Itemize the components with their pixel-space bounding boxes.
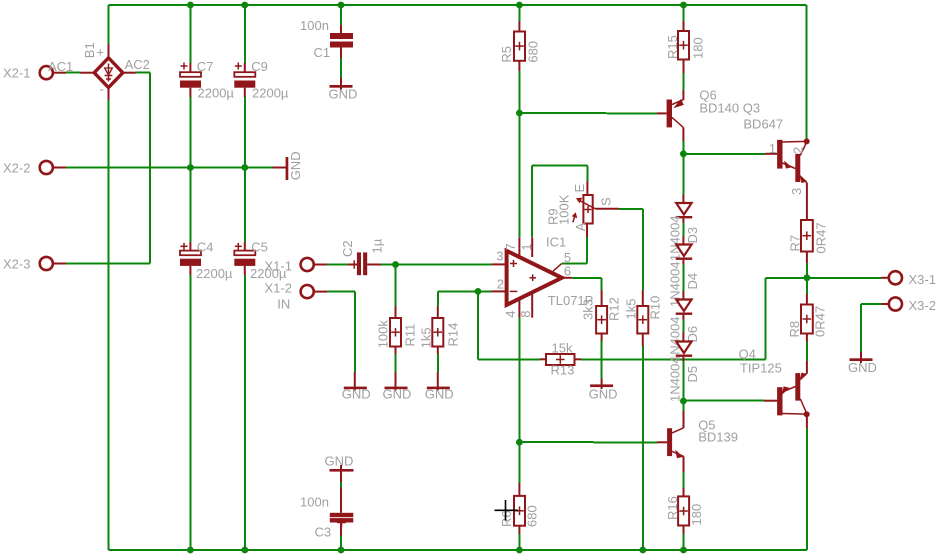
junction top rail C7 xyxy=(187,2,194,9)
wire feedback node down to R13 xyxy=(478,291,540,359)
transistor Q4 xyxy=(739,346,810,428)
cursor crosshair at R6 xyxy=(495,500,519,521)
wire D6 to D5 xyxy=(682,320,684,333)
svg-text:R12: R12 xyxy=(607,297,622,321)
junction bottom rail C5 xyxy=(241,547,248,554)
wire R12 to ground xyxy=(601,341,603,379)
svg-text:GND: GND xyxy=(425,387,454,402)
svg-text:X1-1: X1-1 xyxy=(265,259,292,274)
svg-text:GND: GND xyxy=(325,454,354,469)
svg-text:BD140 Q3: BD140 Q3 xyxy=(699,100,760,115)
wire R10 to bottom rail xyxy=(642,346,644,550)
svg-text:GND: GND xyxy=(329,87,358,102)
svg-text:X2-1: X2-1 xyxy=(3,66,30,81)
ground GND below C1 xyxy=(329,78,358,102)
wire right rail from top rail to Q3 collector xyxy=(806,5,808,139)
resistor R6 xyxy=(499,483,540,550)
junction ground row C7 xyxy=(187,164,194,171)
svg-text:GND: GND xyxy=(383,387,412,402)
op-amp IC1 xyxy=(491,234,593,317)
svg-text:100n: 100n xyxy=(300,495,329,510)
svg-text:R14: R14 xyxy=(445,323,460,347)
connector X3-1 xyxy=(881,271,936,287)
svg-text:R7: R7 xyxy=(788,235,803,252)
wire B1 minus to bottom rail xyxy=(108,100,110,550)
junction output node xyxy=(804,274,811,281)
svg-text:C9: C9 xyxy=(251,59,268,74)
svg-text:GND: GND xyxy=(589,387,618,402)
diode chain from Q6 collector xyxy=(682,154,684,195)
capacitor C5 xyxy=(234,168,287,551)
ground GND below X1-2 xyxy=(342,372,371,402)
wire node to Q4 base xyxy=(683,400,764,402)
junction R5/Q6 base node xyxy=(516,110,523,117)
svg-text:R16: R16 xyxy=(665,496,680,520)
junction bottom rail R10 xyxy=(639,547,646,554)
svg-text:180: 180 xyxy=(689,504,704,526)
svg-text:GND: GND xyxy=(342,387,371,402)
svg-text:R10: R10 xyxy=(648,296,663,320)
svg-text:680: 680 xyxy=(525,41,540,63)
svg-text:R5: R5 xyxy=(499,46,514,63)
svg-text:100n: 100n xyxy=(300,18,329,33)
diode D6 xyxy=(668,291,701,362)
svg-text:TIP125: TIP125 xyxy=(740,360,782,375)
wire B1 plus to top rail xyxy=(108,5,110,44)
resistor R13 xyxy=(540,341,581,378)
resistor R10 xyxy=(623,290,662,346)
svg-text:BD139: BD139 xyxy=(698,430,738,445)
wire V+ top rail xyxy=(109,4,807,6)
junction ground row C9 xyxy=(241,164,248,171)
capacitor C9 xyxy=(234,5,289,168)
junction Q6 collector node xyxy=(680,150,687,157)
svg-text:2: 2 xyxy=(791,147,806,154)
svg-text:AC1: AC1 xyxy=(48,59,73,74)
resistor R5 xyxy=(499,5,540,71)
wire node to Q5 collector xyxy=(682,401,684,411)
capacitor C7 xyxy=(180,5,234,168)
wire node to Q3 base xyxy=(683,153,765,155)
ground GND below R12 xyxy=(589,379,618,402)
svg-text:D3: D3 xyxy=(685,227,700,244)
svg-text:180: 180 xyxy=(690,37,705,59)
svg-text:0R47: 0R47 xyxy=(814,222,829,253)
junction bottom rail R16 xyxy=(680,547,687,554)
junction bias node xyxy=(680,398,687,405)
svg-text:X1-2: X1-2 xyxy=(265,281,292,296)
svg-text:E: E xyxy=(572,184,587,193)
svg-text:R6: R6 xyxy=(499,510,514,527)
resistor R15 xyxy=(665,5,705,73)
junction top rail C9 xyxy=(241,2,248,9)
svg-text:1N4004: 1N4004 xyxy=(668,215,683,261)
capacitor C1 xyxy=(300,5,353,78)
svg-text:D4: D4 xyxy=(685,273,700,290)
svg-text:15k: 15k xyxy=(552,341,573,356)
wire pin 6 to R12 xyxy=(572,278,602,290)
svg-text:2200µ: 2200µ xyxy=(252,86,289,101)
connector X1-2 xyxy=(265,281,328,312)
bridge rectifier B1 xyxy=(48,42,150,100)
junction bottom rail C4 xyxy=(187,547,194,554)
svg-text:X2-2: X2-2 xyxy=(3,160,30,175)
svg-text:AC2: AC2 xyxy=(125,57,150,72)
connector X1-1 xyxy=(265,258,328,274)
connector X2-2 xyxy=(3,160,66,175)
wire R11 to ground xyxy=(395,354,397,372)
svg-text:4: 4 xyxy=(503,310,518,317)
wire node to Q5 base xyxy=(519,441,657,443)
wire R8 to Q4 emitter xyxy=(806,342,808,361)
ground GND below X3-2 xyxy=(848,352,877,375)
capacitor C4 xyxy=(180,168,233,551)
svg-text:3: 3 xyxy=(789,188,804,195)
ground GND at X2-2 row xyxy=(273,151,304,180)
svg-text:GND: GND xyxy=(848,360,877,375)
svg-text:S: S xyxy=(598,197,613,206)
svg-text:B1: B1 xyxy=(82,42,97,58)
wire junction down to R11 xyxy=(395,265,397,307)
wire X3-2 to ground xyxy=(861,304,881,352)
ground GND below R14 xyxy=(425,372,454,402)
wire D4 to D6 xyxy=(682,265,684,292)
junction bottom rail C3 xyxy=(338,547,345,554)
connector X3-2 xyxy=(881,297,936,313)
wire output node to X3-1 xyxy=(807,277,881,279)
svg-text:2200µ: 2200µ xyxy=(196,266,233,281)
wire output node down to R8 xyxy=(806,278,808,294)
svg-text:2: 2 xyxy=(497,277,504,292)
ground GND below R11 xyxy=(383,372,412,402)
svg-text:C5: C5 xyxy=(251,240,268,255)
svg-text:X3-1: X3-1 xyxy=(909,272,936,287)
capacitor C2 xyxy=(340,238,385,275)
svg-text:R11: R11 xyxy=(402,324,417,347)
svg-text:100K: 100K xyxy=(557,194,572,225)
junction top rail C1 xyxy=(338,2,345,9)
wire X2-2 ground row xyxy=(66,167,273,169)
junction R6 top node xyxy=(516,439,523,446)
wire Q5 emitter to R16 xyxy=(683,472,685,488)
wire R9 S to R10 xyxy=(619,209,643,290)
svg-text:D5: D5 xyxy=(685,366,700,383)
wire R7 to output node xyxy=(806,263,808,278)
svg-text:1k5: 1k5 xyxy=(419,327,434,348)
wire Q4 collector to bottom rail xyxy=(806,428,808,550)
svg-text:3k3: 3k3 xyxy=(580,299,595,320)
svg-text:-: - xyxy=(100,82,104,97)
diode D3 xyxy=(668,195,701,262)
resistor R14 xyxy=(419,306,461,354)
svg-text:680: 680 xyxy=(525,505,540,527)
wire R14 to ground xyxy=(437,354,439,372)
svg-text:0R47: 0R47 xyxy=(813,306,828,337)
svg-text:IC1: IC1 xyxy=(546,234,566,249)
svg-text:1: 1 xyxy=(519,243,534,250)
svg-text:R8: R8 xyxy=(787,321,802,338)
wire pin 1 to R9 E xyxy=(532,165,587,237)
svg-text:2200µ: 2200µ xyxy=(198,86,235,101)
wire R15 to Q6 emitter xyxy=(683,73,685,90)
resistor R12 xyxy=(580,290,621,341)
junction bottom rail R6 xyxy=(516,547,523,554)
connector X2-3 xyxy=(3,256,66,271)
capacitor C3 xyxy=(300,495,353,551)
wire X2-3 to AC2 xyxy=(66,73,150,264)
junction top rail R5 xyxy=(516,2,523,9)
svg-text:+: + xyxy=(97,45,105,60)
svg-text:D6: D6 xyxy=(685,326,700,343)
transistor Q5 xyxy=(657,411,738,472)
svg-text:R13: R13 xyxy=(551,363,575,378)
junction input node xyxy=(392,261,399,268)
svg-text:BD647: BD647 xyxy=(743,116,783,131)
svg-text:C4: C4 xyxy=(197,240,214,255)
resistor R11 xyxy=(376,306,418,354)
transistor Q6 xyxy=(657,88,783,141)
svg-text:1N4004: 1N4004 xyxy=(668,356,683,402)
svg-text:IN: IN xyxy=(277,297,290,312)
svg-text:C2: C2 xyxy=(340,240,355,257)
wire V- bottom rail xyxy=(109,549,807,551)
svg-text:X2-3: X2-3 xyxy=(3,256,30,271)
svg-text:C1: C1 xyxy=(314,45,331,60)
svg-text:100k: 100k xyxy=(376,320,391,349)
svg-text:1µ: 1µ xyxy=(370,238,385,253)
ground GND above C3 xyxy=(325,454,354,513)
wire R13 to output feedback xyxy=(581,278,807,360)
wire X1-2 to ground xyxy=(327,292,355,372)
svg-text:GND: GND xyxy=(288,151,303,180)
junction feedback node at pin 2 xyxy=(475,288,482,295)
wire D5 to bias node xyxy=(682,361,684,401)
svg-text:1k5: 1k5 xyxy=(623,299,638,320)
svg-text:6: 6 xyxy=(564,264,571,279)
wire R5 to V+ node of IC xyxy=(518,71,520,237)
wire X2-1 to B1 AC1 xyxy=(66,72,80,74)
wire pin 4 down to Q5 base node xyxy=(518,318,520,484)
junction top rail R15 xyxy=(680,2,687,9)
wire Q6 collector to node xyxy=(682,141,684,154)
resistor R7 xyxy=(788,220,829,263)
resistor R16 xyxy=(665,488,704,550)
svg-text:7: 7 xyxy=(503,243,518,250)
svg-text:Q4: Q4 xyxy=(739,346,756,361)
connector X2-1 xyxy=(3,66,66,81)
wire op-amp pin 2 row xyxy=(438,291,492,306)
transistor Q3 xyxy=(765,138,810,220)
diode D5 xyxy=(668,332,701,402)
svg-text:8: 8 xyxy=(518,310,533,317)
svg-text:X3-2: X3-2 xyxy=(909,298,936,313)
diode D4 xyxy=(668,236,701,307)
wire node to Q6 base xyxy=(519,112,657,114)
wire pin 5 to R9 A xyxy=(562,237,587,263)
wire D3 to D4 xyxy=(682,223,684,236)
svg-text:1: 1 xyxy=(769,141,776,156)
trimmer R9 xyxy=(546,181,619,237)
wire X1-1 to C2 xyxy=(327,264,348,266)
svg-text:R15: R15 xyxy=(665,35,680,59)
svg-text:C3: C3 xyxy=(315,525,332,540)
svg-text:A: A xyxy=(573,222,588,231)
wire C2 to op-amp pin 3 xyxy=(381,263,491,265)
resistor R8 xyxy=(787,294,828,342)
svg-text:C7: C7 xyxy=(197,59,214,74)
